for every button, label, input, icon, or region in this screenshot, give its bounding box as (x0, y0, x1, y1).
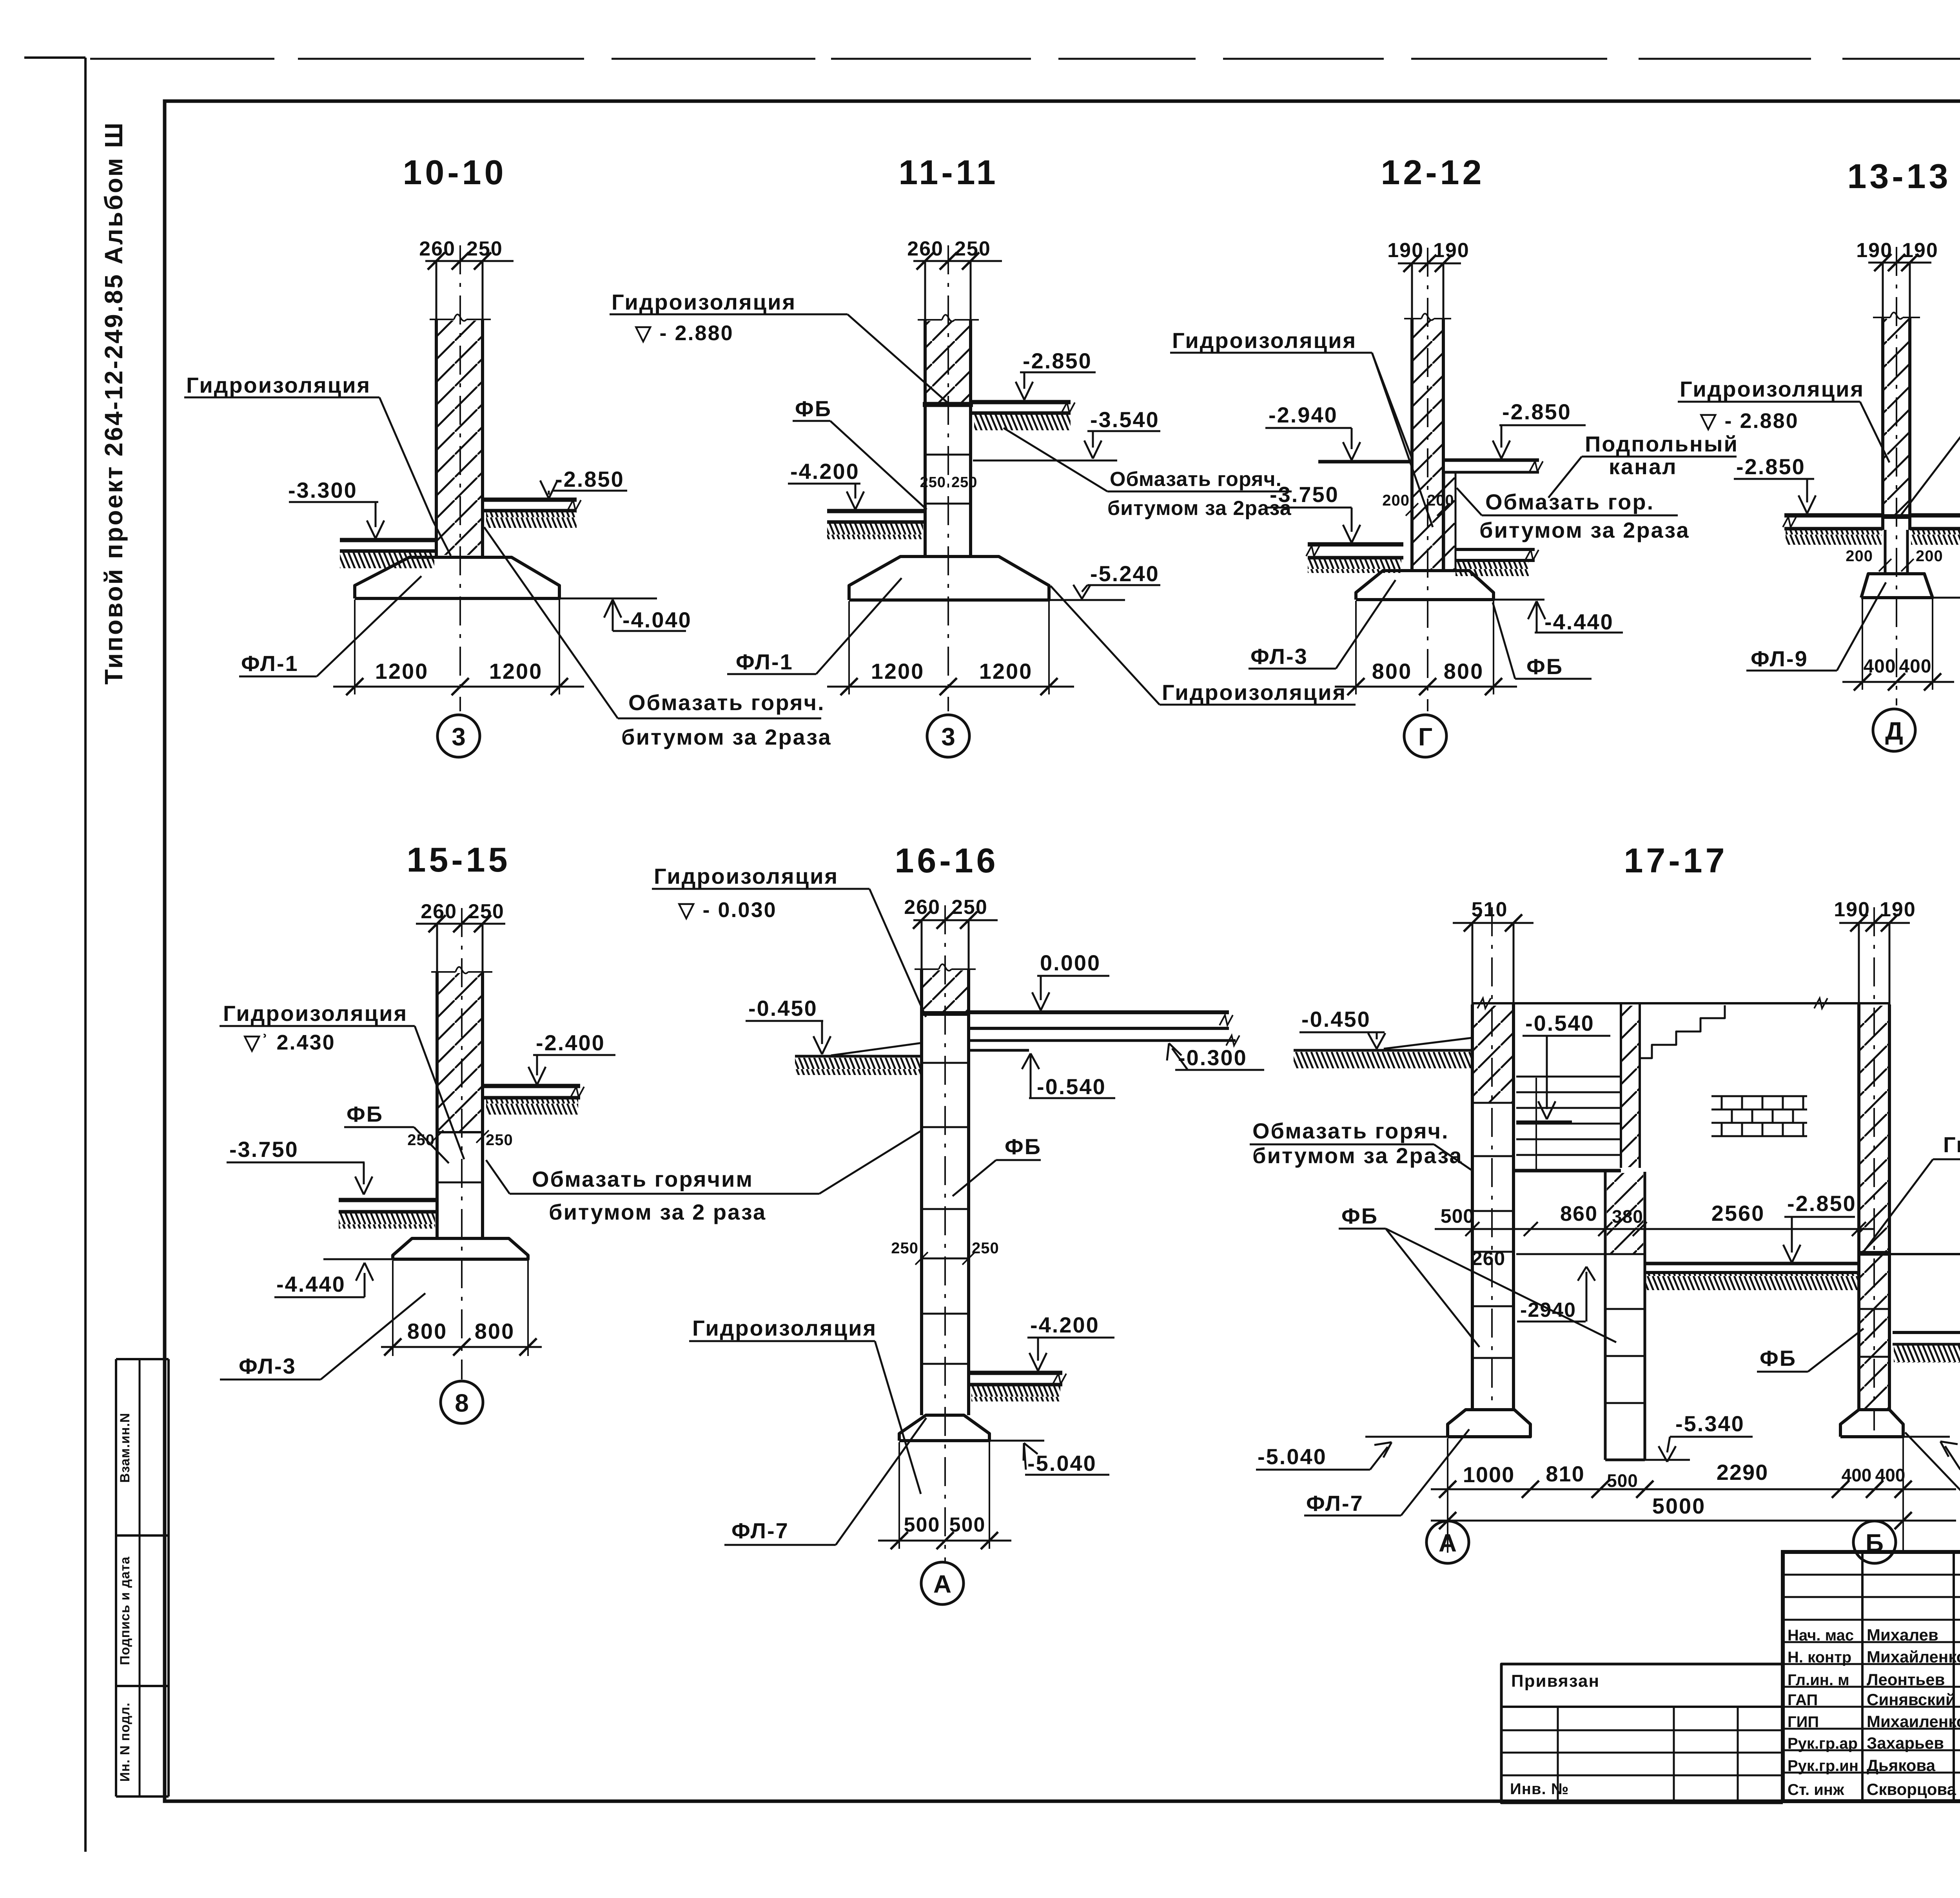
section 17-17 right wall top dimension 190 190 (1839, 922, 1910, 924)
section 12-12 top dimension 190 190 (1398, 263, 1461, 265)
title block designer table rows (1783, 1574, 1960, 1576)
section 10-10 wall break mark (430, 319, 454, 320)
section 17-17 right wall axis line (1873, 907, 1875, 1430)
section 17-17 left ground line -0.450 (1294, 1049, 1472, 1052)
section 13-13 wall break mark (1873, 317, 1890, 318)
section 17-17 left wall (1472, 923, 1474, 1410)
svg-text:250: 250 (972, 1240, 999, 1257)
section 17-17 axis circle А riser (1447, 1522, 1448, 1522)
section 13-13 wall axis line (1896, 247, 1897, 705)
svg-text:Михаиленко: Михаиленко (1867, 1712, 1960, 1731)
svg-text:-3.540: -3.540 (1090, 407, 1160, 432)
section 11-11 footing bottom extension line (1049, 599, 1125, 601)
svg-text:▽ʾ 2.430: ▽ʾ 2.430 (243, 1031, 336, 1054)
section 15-15 wall axis line (461, 908, 463, 1380)
section 12-12 underfloor channel cover slab (1443, 459, 1539, 462)
svg-text:Подпольный: Подпольный (1585, 431, 1739, 456)
svg-text:Гидроизоляция: Гидроизоляция (1680, 377, 1864, 401)
svg-text:250: 250 (468, 900, 505, 923)
svg-text:13-13: 13-13 (1847, 157, 1951, 196)
svg-text:Д: Д (1885, 717, 1903, 745)
svg-text:Гидроизоляция: Гидроизоляция (612, 290, 796, 314)
section 13-13 axis circle Д (1873, 709, 1915, 751)
svg-text:-4.040: -4.040 (622, 607, 692, 632)
svg-text:400: 400 (1842, 1465, 1872, 1485)
section 17-17 right lower ground slab -3.75 (1893, 1331, 1960, 1334)
section 11-11 right ground hatch (974, 414, 1071, 430)
svg-text:15-15: 15-15 (407, 840, 510, 879)
left margin side table (115, 1359, 117, 1796)
section 10-10 axis circle 3 (437, 715, 480, 757)
section 10-10 left ground hatch (340, 552, 434, 568)
svg-text:-2.400: -2.400 (536, 1030, 605, 1055)
svg-text:ФЛ-7: ФЛ-7 (731, 1518, 789, 1543)
svg-text:Михалев: Михалев (1867, 1626, 1938, 1644)
svg-text:Гидроизоляция: Гидроизоляция (223, 1001, 408, 1026)
section 11-11 wall axis line (947, 245, 949, 711)
svg-text:битумом за 2раза: битумом за 2раза (1252, 1143, 1463, 1168)
section 12-12 left floor line -2.940 (1318, 460, 1412, 464)
section 17-17 overall dimension 5000 (1431, 1520, 1956, 1522)
svg-text:-0.450: -0.450 (748, 996, 818, 1021)
section 10-10 bottom dimension line 1200 1200 (333, 686, 584, 688)
svg-text:1000: 1000 (1463, 1462, 1515, 1487)
svg-text:Инв. №: Инв. № (1510, 1780, 1569, 1798)
svg-text:800: 800 (1372, 659, 1412, 683)
svg-text:Подпись и дата: Подпись и дата (118, 1556, 132, 1665)
svg-text:битумом за 2раза: битумом за 2раза (621, 725, 832, 749)
section 17-17 stair flight lines (1516, 1076, 1621, 1078)
section 16-16 left ground hatch (795, 1058, 922, 1075)
section 15-15 wall (436, 924, 438, 1238)
section 13-13 top dimension 190 190 (1868, 262, 1931, 264)
svg-text:400: 400 (1875, 1465, 1906, 1485)
svg-text:Синявский: Синявский (1867, 1690, 1956, 1709)
section 16-16 left ground line -0.450 (795, 1055, 922, 1058)
svg-text:-4.440: -4.440 (276, 1272, 346, 1296)
svg-text:11-11: 11-11 (898, 153, 998, 192)
svg-text:Гидроизоляция: Гидроизоляция (1162, 680, 1347, 705)
svg-text:ГАП: ГАП (1788, 1691, 1818, 1709)
svg-text:Гидроизоляция: Гидроизоляция (654, 864, 838, 888)
svg-text:5000: 5000 (1652, 1494, 1706, 1518)
svg-text:Привязан: Привязан (1511, 1671, 1600, 1691)
svg-text:-4.440: -4.440 (1544, 609, 1614, 634)
section 12-12 bitumen coated strip on channel side (1443, 472, 1445, 571)
section 16-16 axis circle А (921, 1562, 964, 1604)
section 17-17 left wall block joints (1472, 1102, 1514, 1104)
svg-text:190: 190 (1880, 898, 1916, 921)
svg-text:8: 8 (455, 1389, 469, 1417)
section 16-16 level mark -5.040 (1024, 1443, 1024, 1461)
svg-text:190: 190 (1856, 239, 1893, 262)
section 16-16 wall (921, 920, 923, 1415)
section 12-12 wall break mark (1404, 318, 1421, 319)
svg-text:-4.200: -4.200 (790, 459, 860, 484)
section 17-17 axis circle Б (1853, 1521, 1896, 1563)
svg-text:Ин. N подл.: Ин. N подл. (118, 1702, 132, 1782)
section 16-16 ФБ block joints (922, 1062, 969, 1064)
title block designer table columns (1861, 1552, 1864, 1801)
svg-text:16-16: 16-16 (895, 841, 998, 880)
svg-text:ФЛ-1: ФЛ-1 (736, 649, 793, 674)
svg-text:-3.300: -3.300 (288, 478, 358, 502)
section 16-16 waterproofing joint 0.000 (920, 1011, 970, 1016)
section 13-13 footing bottom extension line (1933, 597, 1960, 599)
section 11-11 right lower ledge line -3.540 (973, 460, 1117, 462)
section 12-12 footing extension lines (1355, 601, 1357, 694)
section 15-15 wall hatch (439, 973, 481, 1131)
svg-text:Рук.гр.ар: Рук.гр.ар (1788, 1735, 1858, 1752)
svg-text:2560: 2560 (1711, 1201, 1765, 1225)
svg-text:200: 200 (1846, 547, 1873, 565)
svg-text:ФЛ-1: ФЛ-1 (241, 651, 299, 676)
section 12-12 wall (1411, 263, 1413, 571)
section 15-15 footing ФЛ-3 outline (393, 1238, 528, 1259)
svg-text:Типовой проект 264-12-249.85: Типовой проект 264-12-249.85 Альбом Ш (100, 121, 128, 685)
svg-text:250: 250 (951, 474, 977, 491)
section 10-10 right floor slab -2.850 (483, 498, 577, 502)
section 17-17 bottom dimension line row (1431, 1488, 1956, 1490)
svg-text:-3.750: -3.750 (1270, 482, 1339, 507)
section 13-13 right floor slab -2.850 (1910, 513, 1960, 518)
svg-text:Нач. мас: Нач. мас (1788, 1627, 1854, 1644)
section 17-17 left wall footing ФЛ-7 (1448, 1410, 1530, 1437)
svg-text:190: 190 (1433, 239, 1470, 262)
section 17-17 right wall footing ФЛ-9 (1840, 1410, 1903, 1437)
svg-text:400: 400 (1863, 656, 1896, 677)
title block outer rectangle (1783, 1552, 1960, 1801)
section 10-10 level mark -4.040 (604, 600, 613, 618)
svg-text:Обмазать гор.: Обмазать гор. (1485, 489, 1654, 514)
svg-text:А: А (933, 1570, 951, 1598)
section 17-17 right outer ground line -2.940 (1889, 1253, 1960, 1255)
svg-text:800: 800 (475, 1319, 515, 1343)
section 11-11 left floor slab -4.200 (827, 509, 925, 513)
title block left attachment table (1501, 1664, 1783, 1803)
svg-text:-5.240: -5.240 (1090, 561, 1160, 586)
section 17-17 stair flight mid vertical line (1535, 1078, 1537, 1171)
section 13-13 left floor slab -2.850 (1784, 513, 1883, 518)
section 12-12 axis circle Г (1404, 715, 1446, 757)
svg-text:Дьякова: Дьякова (1867, 1756, 1936, 1775)
svg-text:250: 250 (920, 474, 946, 491)
svg-text:810: 810 (1546, 1461, 1584, 1486)
svg-text:Ст. инж: Ст. инж (1788, 1781, 1844, 1798)
svg-text:500: 500 (949, 1514, 986, 1536)
svg-text:10-10: 10-10 (403, 153, 506, 192)
svg-text:▽ - 0.030: ▽ - 0.030 (677, 898, 777, 922)
section 13-13 wall stem below slab (1884, 530, 1887, 574)
section 12-12 footing ФЛ-3 outline (1356, 571, 1494, 600)
section 12-12 left lower floor slab -3.750 (1308, 542, 1403, 547)
section 11-11 wall break mark (918, 319, 942, 321)
section 17-17 right wall block joints (1859, 1308, 1889, 1310)
section 10-10 footing ФЛ-1 outline (355, 557, 559, 598)
svg-text:-5.040: -5.040 (1027, 1451, 1097, 1476)
svg-text:-0.540: -0.540 (1525, 1011, 1595, 1035)
section 16-16 level mark -0.540 (1022, 1053, 1031, 1069)
svg-text:Обмазать горяч.: Обмазать горяч. (628, 690, 825, 715)
section 17-17 middle column joints (1605, 1253, 1645, 1255)
section 17-17 ground floor line 0.000 (1472, 1002, 1889, 1004)
section 10-10 label Обмазать горяч. битумом за 2 раза with leader (484, 527, 618, 718)
section 13-13 waterproofing joint (1881, 514, 1911, 519)
section 17-17 middle column (1604, 1172, 1607, 1460)
svg-text:190: 190 (1902, 239, 1938, 262)
section 15-15 right ground hatch (486, 1099, 578, 1115)
svg-text:ФЛ-3: ФЛ-3 (239, 1354, 296, 1378)
section 17-17 right wall hatch (1860, 1006, 1888, 1409)
section 15-15 left ground hatch (339, 1213, 435, 1229)
svg-text:ФЛ-9: ФЛ-9 (1751, 646, 1808, 671)
svg-text:ФБ: ФБ (1005, 1134, 1042, 1159)
section 12-12 bottom dimension line 800 800 (1335, 686, 1517, 688)
section 13-13 right ground hatch (1911, 530, 1960, 545)
section 17-17 middle column bottom extension (1645, 1459, 1690, 1461)
section 17-17 axis circle А (1426, 1521, 1469, 1563)
svg-text:-2.850: -2.850 (555, 467, 624, 491)
svg-text:А: А (1439, 1529, 1457, 1557)
section 15-15 axis circle 8 (441, 1381, 483, 1423)
svg-text:860: 860 (1560, 1202, 1598, 1225)
svg-text:17-17: 17-17 (1624, 841, 1728, 880)
svg-text:510: 510 (1472, 898, 1508, 921)
section 16-16 right lower floor slab -4.200 (969, 1371, 1062, 1375)
section 12-12 level mark -4.440 (1528, 601, 1537, 619)
section 11-11 waterproofing joint line (923, 402, 973, 407)
sheet outer border top edge (broken scan line) (90, 58, 274, 60)
section 16-16 right floor slab 0.000 (969, 1010, 1229, 1014)
svg-text:ФБ: ФБ (1526, 654, 1563, 679)
svg-text:-5.340: -5.340 (1675, 1411, 1745, 1436)
svg-text:▽ - 2.880: ▽ - 2.880 (1699, 409, 1799, 433)
section 15-15 top dimension 260 250 (416, 923, 505, 925)
section 17-17 basement floor slab -2.850 (1645, 1262, 1859, 1265)
section 16-16 wall axis line (944, 905, 946, 1564)
svg-text:500: 500 (1441, 1205, 1474, 1227)
section 16-16 interior floor line -0.540 (969, 1049, 1029, 1052)
svg-text:200: 200 (1382, 492, 1410, 509)
svg-text:-2.850: -2.850 (1023, 348, 1092, 373)
section 10-10 wall (436, 261, 437, 557)
section 17-17 left wall axis line (1491, 907, 1493, 1407)
svg-text:260: 260 (421, 900, 457, 923)
svg-text:-2.850: -2.850 (1787, 1191, 1857, 1216)
section 13-13 left ground hatch (1786, 530, 1882, 545)
section 16-16 footing extension lines (898, 1442, 900, 1549)
svg-text:Рук.гр.ин: Рук.гр.ин (1788, 1757, 1858, 1775)
svg-text:-2.850: -2.850 (1736, 454, 1806, 479)
svg-text:Захарьев: Захарьев (1867, 1734, 1944, 1752)
section 16-16 footing ФЛ-7 outline (899, 1415, 989, 1441)
section 12-12 left lower ground hatch (1308, 559, 1401, 573)
section 15-15 footing bottom extension line left (323, 1258, 393, 1260)
section 11-11 footing extension lines (848, 601, 850, 694)
section 17-17 middle column hatch (1607, 1173, 1643, 1253)
section 15-15 left floor slab -3.750 (339, 1198, 437, 1202)
svg-text:битумом за 2раза: битумом за 2раза (1107, 497, 1292, 520)
svg-text:Гидроизоляция: Гидроизоляция (1172, 328, 1357, 353)
svg-text:-0.450: -0.450 (1301, 1007, 1371, 1031)
svg-text:250: 250 (466, 237, 503, 260)
svg-text:800: 800 (1444, 659, 1484, 683)
svg-text:канал: канал (1609, 454, 1677, 479)
svg-text:битумом за 2раза: битумом за 2раза (1479, 518, 1690, 542)
section 12-12 channel floor slab (1455, 548, 1535, 551)
svg-text:ФЛ-7: ФЛ-7 (1306, 1491, 1364, 1515)
svg-text:250: 250 (951, 896, 988, 919)
section 11-11 left ground hatch (827, 523, 923, 539)
svg-text:Леонтьев: Леонтьев (1867, 1670, 1945, 1689)
section 17-17 mid dimension line 500 860 380 2560 (1435, 1228, 1874, 1230)
section 17-17 extension lines to overall dimension (1447, 1438, 1448, 1553)
section 17-17 left wall hatch (1474, 1006, 1512, 1103)
section 10-10 footing bottom line extension for level -4.040 (559, 598, 657, 600)
svg-text:250: 250 (891, 1240, 918, 1257)
section 17-17 basement floor ground hatch (1645, 1274, 1859, 1290)
section 10-10 left floor slab -3.300 (340, 538, 436, 542)
svg-text:битумом за 2 раза: битумом за 2 раза (549, 1200, 766, 1224)
section 13-13 bottom dimension line 400 400 (1842, 681, 1954, 683)
svg-text:-4.200: -4.200 (1030, 1312, 1100, 1337)
section 11-11 bottom dimension line 1200 1200 (827, 686, 1074, 688)
svg-text:Обмазать горяч.: Обмазать горяч. (1252, 1118, 1449, 1143)
svg-text:12-12: 12-12 (1381, 153, 1485, 192)
section 16-16 bottom dimension line 500 500 (878, 1540, 1011, 1542)
svg-text:-5.040: -5.040 (1258, 1444, 1327, 1469)
svg-text:Н. контр: Н. контр (1788, 1649, 1851, 1666)
section 11-11 wall (924, 261, 926, 557)
svg-text:260: 260 (1472, 1247, 1505, 1269)
section 11-11 footing ФЛ-1 outline (849, 557, 1049, 600)
svg-text:400: 400 (1899, 656, 1931, 677)
svg-text:2290: 2290 (1717, 1460, 1769, 1485)
section 11-11 right floor slab -2.850 (971, 400, 1071, 404)
svg-text:Гидроизоляция: Гидроизоляция (692, 1316, 877, 1340)
section 16-16 footing bottom extension line (989, 1440, 1044, 1442)
svg-text:ФБ: ФБ (795, 396, 832, 421)
section 17-17 interior channel floor line (1516, 1253, 1605, 1255)
svg-text:1200: 1200 (979, 659, 1033, 683)
svg-text:1200: 1200 (489, 659, 543, 683)
section 12-12 wall axis line (1427, 248, 1428, 711)
svg-text:Взам.ин.N: Взам.ин.N (118, 1413, 132, 1483)
svg-text:260: 260 (904, 896, 940, 919)
section 10-10 top dimension 260 250 (425, 260, 514, 262)
svg-text:Обмазать горяч.: Обмазать горяч. (1110, 468, 1282, 491)
svg-text:190: 190 (1834, 898, 1870, 921)
svg-text:▽ - 2.880: ▽ - 2.880 (634, 321, 734, 345)
section 15-15 footing extension lines (392, 1260, 394, 1356)
svg-text:ФБ: ФБ (347, 1102, 383, 1126)
svg-text:200: 200 (1427, 492, 1454, 509)
section 17-17 upper stair wall (1620, 1004, 1622, 1168)
section 16-16 right lower ground hatch (971, 1386, 1060, 1401)
svg-text:Михайленко: Михайленко (1867, 1648, 1960, 1666)
section 17-17 right wall (1858, 923, 1860, 1410)
section 13-13 footing ФЛ-9 outline (1861, 574, 1933, 598)
svg-text:250: 250 (955, 237, 991, 260)
svg-text:ФБ: ФБ (1760, 1346, 1797, 1370)
svg-text:260: 260 (419, 237, 456, 260)
section 10-10 wall axis line (459, 245, 461, 711)
svg-text:200: 200 (1916, 547, 1943, 565)
svg-text:3: 3 (941, 723, 955, 751)
section 16-16 top dimension 260 250 (913, 919, 998, 921)
svg-text:500: 500 (1607, 1470, 1638, 1491)
svg-text:Гидроизоляция: Гидроизоляция (186, 373, 371, 397)
svg-text:-2.850: -2.850 (1502, 399, 1572, 424)
sheet outer border top-left corner segment (24, 56, 85, 59)
svg-text:1200: 1200 (871, 659, 925, 683)
section 15-15 right floor slab -2.400 (483, 1084, 580, 1088)
section 12-12 wall hatch (1414, 320, 1442, 569)
svg-text:-2.940: -2.940 (1269, 402, 1338, 427)
section 16-16 wall hatch upper part (923, 970, 967, 1012)
section 17-17 stair steps (1640, 1005, 1725, 1058)
svg-text:ФЛ-3: ФЛ-3 (1250, 644, 1308, 669)
section 15-15 ФБ joints (437, 1131, 483, 1133)
svg-text:260: 260 (907, 237, 944, 260)
section 13-13 wall (1882, 263, 1884, 530)
sheet outer border left edge (84, 58, 87, 1852)
svg-text:0.000: 0.000 (1040, 950, 1101, 975)
section 15-15 wall break mark (431, 971, 456, 973)
section 10-10 right ground hatch (486, 511, 577, 528)
svg-text:Обмазать горячим: Обмазать горячим (532, 1167, 753, 1191)
svg-text:800: 800 (407, 1319, 447, 1343)
section 17-17 right lower ground hatch (1894, 1345, 1960, 1363)
section 10-10 wall hatch (438, 321, 481, 555)
svg-text:Гл.ин. м: Гл.ин. м (1788, 1671, 1849, 1689)
svg-text:Гидроизоляция: Гидроизоляция (1943, 1132, 1960, 1157)
section 10-10 footing extension lines (354, 600, 356, 694)
section 15-15 bottom dimension line 800 800 (381, 1346, 542, 1348)
svg-text:ГИП: ГИП (1788, 1713, 1819, 1731)
section 12-12 channel floor ground hatch (1455, 561, 1529, 576)
section 12-12 footing bottom extension line (1494, 599, 1544, 601)
svg-text:1200: 1200 (375, 659, 429, 683)
svg-text:-0.540: -0.540 (1037, 1074, 1106, 1099)
section 17-17 brick wall patch (1711, 1095, 1807, 1097)
section 11-11 axis circle 3 (927, 715, 969, 757)
svg-text:190: 190 (1387, 239, 1424, 262)
section 17-17 left ground hatch (1294, 1052, 1472, 1068)
svg-text:500: 500 (904, 1514, 940, 1536)
section 16-16 right lower floor line -0.300 (969, 1039, 1236, 1042)
section 16-16 wall break mark (915, 968, 939, 970)
svg-text:3: 3 (452, 723, 466, 751)
section 11-11 top dimension 260 250 (913, 260, 1002, 262)
section 17-17 right wall waterproofing joint (1857, 1251, 1891, 1256)
section 17-17 left wall top dimension 510 (1453, 922, 1534, 924)
svg-text:380: 380 (1612, 1206, 1643, 1227)
section 13-13 footing extension lines (1862, 599, 1863, 690)
svg-text:Скворцова: Скворцова (1867, 1780, 1956, 1798)
section 13-13 wall hatch (1884, 319, 1908, 514)
section 11-11 wall hatch upper brick part (927, 321, 969, 403)
svg-text:Г: Г (1418, 723, 1432, 751)
svg-text:-0.300: -0.300 (1178, 1045, 1247, 1070)
svg-text:ФБ: ФБ (1341, 1204, 1378, 1228)
svg-text:-3.750: -3.750 (229, 1137, 299, 1162)
svg-text:250: 250 (486, 1131, 513, 1149)
section 11-11 ФБ block joints (925, 454, 971, 456)
